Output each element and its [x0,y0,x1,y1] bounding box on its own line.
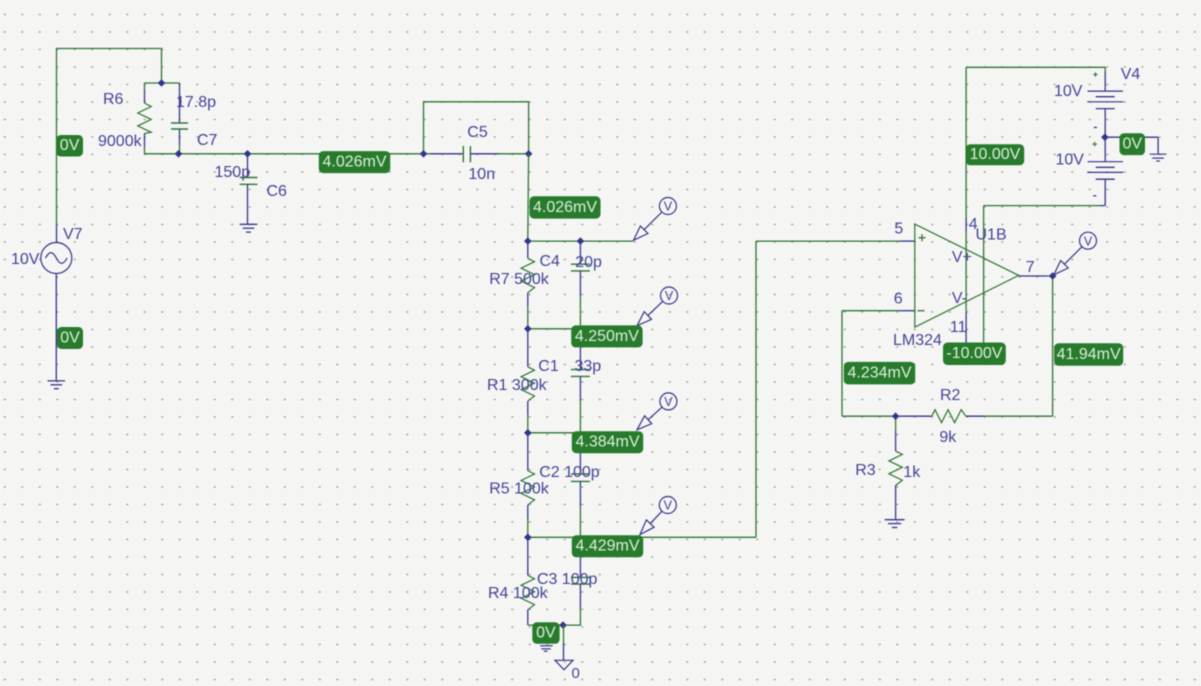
svg-text:C7: C7 [197,132,218,149]
svg-text:4.384mV: 4.384mV [575,434,639,451]
svg-text:V4: V4 [1121,66,1141,83]
svg-text:LM324: LM324 [893,332,942,349]
svg-text:10n: 10n [468,166,495,183]
svg-text:33p: 33p [575,358,602,375]
svg-text:C2 100p: C2 100p [539,464,600,481]
svg-text:0V: 0V [536,624,556,641]
svg-text:4.026mV: 4.026mV [322,154,386,171]
svg-text:20p: 20p [575,254,602,271]
svg-text:4.429mV: 4.429mV [575,538,639,555]
svg-text:17.8p: 17.8p [176,94,216,111]
svg-text:10V: 10V [11,251,40,268]
svg-text:4.234mV: 4.234mV [847,365,911,382]
svg-text:4.250mV: 4.250mV [575,328,639,345]
svg-text:R1 300k: R1 300k [487,377,548,394]
svg-text:9k: 9k [939,429,957,446]
svg-text:4.026mV: 4.026mV [533,199,597,216]
svg-text:V: V [664,395,673,409]
svg-text:V: V [1084,234,1093,248]
svg-text:41.94mV: 41.94mV [1057,346,1121,363]
svg-text:V: V [664,200,673,214]
svg-text:R7 500k: R7 500k [489,271,550,288]
svg-text:V7: V7 [63,226,83,243]
svg-text:0V: 0V [60,137,80,154]
svg-text:0V: 0V [1122,136,1142,153]
svg-text:5: 5 [894,221,903,238]
svg-text:1k: 1k [903,464,921,481]
svg-text:R3: R3 [855,462,876,479]
svg-text:6: 6 [894,291,903,308]
svg-text:C3 100p: C3 100p [537,571,598,588]
svg-text:-10.00V: -10.00V [946,345,1002,362]
svg-text:0V: 0V [60,329,80,346]
svg-text:11: 11 [950,319,967,336]
svg-text:C5: C5 [467,124,488,141]
svg-text:V+: V+ [952,249,972,266]
svg-text:R5 100k: R5 100k [489,481,550,498]
svg-text:R6: R6 [103,91,124,108]
svg-text:150p: 150p [215,164,251,181]
svg-text:9000k: 9000k [98,133,143,150]
svg-text:V: V [665,289,674,303]
svg-text:V: V [664,499,673,513]
svg-text:R2: R2 [940,387,961,404]
svg-text:10V: 10V [1056,152,1085,169]
svg-text:U1B: U1B [976,227,1007,244]
svg-text:C1: C1 [538,358,559,375]
svg-text:C6: C6 [267,183,288,200]
svg-text:0: 0 [572,665,580,682]
svg-text:10V: 10V [1054,83,1083,100]
svg-text:C4: C4 [540,253,561,270]
svg-text:7: 7 [1026,259,1035,276]
svg-text:V-: V- [952,290,967,307]
svg-text:10.00V: 10.00V [970,146,1021,163]
